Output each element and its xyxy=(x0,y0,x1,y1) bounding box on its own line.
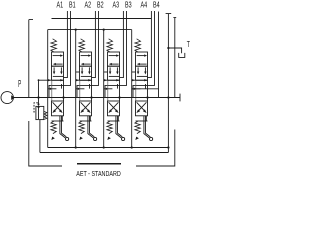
svg-text:A2: A2 xyxy=(85,1,92,10)
tank port stub xyxy=(168,48,181,53)
node P-relief xyxy=(37,96,39,98)
relief valve RV xyxy=(39,79,49,81)
relief valve body xyxy=(36,106,44,119)
pump xyxy=(1,92,13,104)
carryover wire lower xyxy=(136,130,175,167)
pilot rail xyxy=(48,29,132,31)
envelope left lower xyxy=(29,121,62,166)
tank rail (top) xyxy=(52,18,152,20)
P bus end plug xyxy=(179,94,181,102)
envelope left edge xyxy=(29,20,33,98)
tank bus (relief) xyxy=(40,152,169,154)
feed link section 2 xyxy=(76,71,80,73)
node P-tank xyxy=(167,96,169,98)
relief valve arrow xyxy=(38,108,40,120)
title rule xyxy=(77,163,121,165)
relief pilot line (dashed) xyxy=(34,103,38,112)
node rail-riser3 xyxy=(103,28,105,30)
relief valve spring xyxy=(44,111,47,119)
valve section 4 xyxy=(132,11,155,148)
svg-text:B2: B2 xyxy=(97,1,104,10)
svg-text:AET - STANDARD: AET - STANDARD xyxy=(76,171,121,178)
valve section 1 xyxy=(48,11,71,148)
valve section 2 xyxy=(76,11,99,148)
svg-text:P: P xyxy=(18,78,21,90)
svg-text:A1: A1 xyxy=(57,1,64,10)
node rail-riser2 xyxy=(75,28,77,30)
feed link section 3 xyxy=(104,71,108,73)
relief tank wire xyxy=(39,120,41,153)
tank symbol xyxy=(179,53,185,58)
svg-text:A3: A3 xyxy=(113,1,120,10)
svg-text:B1: B1 xyxy=(69,1,76,10)
node bus-riser4 xyxy=(131,146,133,148)
port labels row xyxy=(57,1,160,10)
outlet drop wire xyxy=(158,12,160,98)
carryover wire upper xyxy=(173,18,176,98)
tank bus (sections) xyxy=(48,147,169,149)
P bus line xyxy=(13,97,180,99)
node bus-tank xyxy=(167,146,169,148)
feed link section 4 xyxy=(132,71,136,73)
node bus-riser3 xyxy=(103,146,105,148)
node tank-stub xyxy=(167,47,169,49)
svg-text:B3: B3 xyxy=(125,1,132,10)
svg-text:A4: A4 xyxy=(141,1,148,10)
valve section 3 xyxy=(104,11,127,148)
svg-text:T: T xyxy=(187,39,190,49)
svg-text:B4: B4 xyxy=(153,1,160,10)
node bus-riser2 xyxy=(75,146,77,148)
tank line vertical xyxy=(166,14,172,153)
outlet feed wire xyxy=(132,88,159,90)
